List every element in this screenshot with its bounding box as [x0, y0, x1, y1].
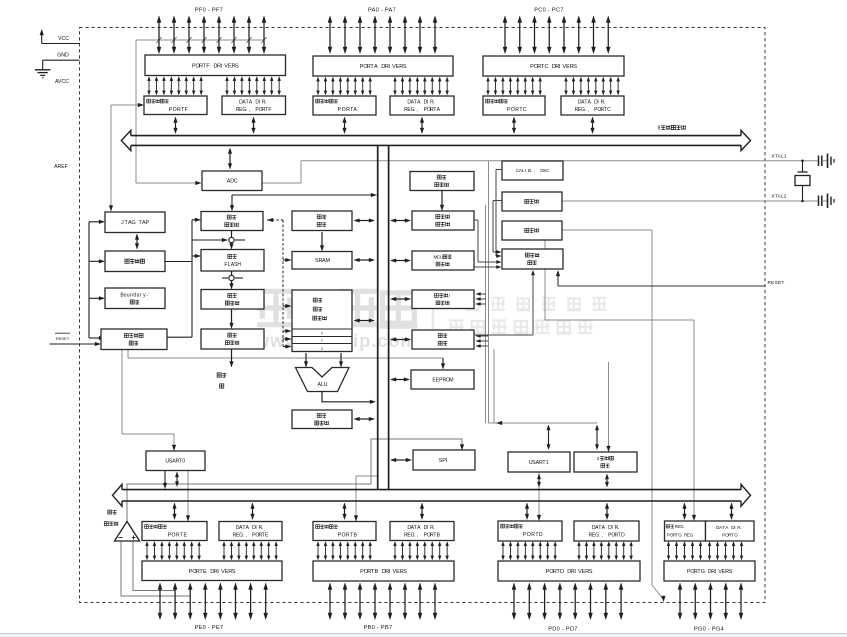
data register PORTG	[665, 521, 706, 541]
svg-text:A: A	[374, 64, 378, 70]
bus arrows PORTG	[684, 508, 686, 516]
arrow INT-bus	[395, 339, 406, 341]
data direction register PORTF	[222, 96, 286, 115]
svg-text:S: S	[573, 64, 577, 70]
svg-text:G: G	[701, 569, 705, 575]
on-chip debug 片上调试	[105, 251, 165, 272]
data register PORTF	[144, 96, 207, 115]
program counter 程序计数器	[201, 212, 263, 231]
crystal component	[801, 160, 804, 163]
arrow MCUCR-bus	[395, 260, 406, 262]
svg-text:S: S	[232, 569, 236, 575]
ALU	[296, 368, 350, 392]
PORTB pin arrows	[329, 589, 331, 615]
data register PORTE	[142, 522, 207, 541]
svg-text:C: C	[234, 179, 238, 185]
PORTD DRIVERS	[498, 561, 640, 581]
svg-text:XTAL1: XTAL1	[771, 154, 786, 160]
RESET wire	[558, 285, 765, 287]
EEPROM	[411, 370, 474, 389]
svg-text:I: I	[255, 525, 256, 531]
PORTE DRIVERS	[142, 561, 282, 581]
svg-text:.: .	[683, 524, 684, 529]
watermark 华强芯城	[257, 289, 295, 327]
PORTC DRIVERS	[483, 56, 624, 76]
program flash 程序FLASH	[201, 250, 264, 272]
svg-text:M: M	[325, 258, 330, 264]
svg-text:.: .	[414, 533, 415, 539]
USART0	[146, 451, 205, 471]
watchdog timer 看门狗定时器	[412, 211, 474, 230]
PORTG DRIVERS	[664, 561, 755, 581]
stack pointer 堆栈指针	[292, 211, 352, 231]
instruction register 指令寄存器	[201, 290, 264, 310]
wires into timing&control	[496, 169, 502, 171]
small arrows PORTG	[668, 545, 670, 557]
SPI	[413, 450, 475, 470]
interrupt unit 中断单元	[412, 330, 474, 349]
data register PORTA	[313, 96, 376, 115]
interrupt request arrows	[479, 335, 488, 337]
svg-text:.: .	[246, 107, 247, 113]
arrow TWI-bus	[606, 478, 608, 483]
arrow SP to SRAM	[321, 232, 323, 248]
wire OCD/programming to PC & flash	[191, 220, 193, 337]
arrow clock-TWI	[596, 429, 598, 446]
mux circle 1	[192, 239, 225, 241]
XTAL2 load capacitor & ground	[818, 196, 820, 207]
arrow TC-bus	[395, 298, 406, 300]
data direction register PORTD	[574, 521, 639, 541]
small arrows drivers-dataReg PORTF	[148, 80, 150, 92]
svg-text:,: ,	[588, 107, 589, 113]
bus arrows PORTF	[175, 122, 177, 130]
arrow USART1-bus	[538, 478, 540, 483]
wire: comparator inputs to PORTE pins	[121, 541, 190, 596]
SRAM	[292, 252, 352, 270]
svg-text:,: ,	[246, 533, 247, 539]
svg-text:I: I	[427, 100, 428, 106]
svg-text:S: S	[589, 569, 593, 575]
RESET input (left)	[55, 332, 70, 334]
svg-text:PD0 - PD7: PD0 - PD7	[548, 627, 577, 633]
arrow JTAG-OCD	[136, 239, 138, 245]
svg-text:S: S	[403, 64, 407, 70]
wire: clock distribution verticals	[488, 161, 490, 423]
svg-text:I: I	[715, 569, 717, 575]
svg-text:I: I	[427, 525, 428, 531]
svg-text:M: M	[449, 377, 453, 383]
svg-text:.: .	[584, 107, 585, 113]
svg-text:PORTA: PORTA	[338, 107, 358, 113]
JTAG TAP	[105, 212, 165, 233]
svg-text:I: I	[611, 525, 612, 531]
svg-text:PORTE: PORTE	[168, 533, 188, 539]
svg-text:C: C	[607, 107, 611, 113]
timing and control 时序与控制	[502, 249, 563, 269]
svg-text:S: S	[403, 569, 407, 575]
svg-text:G: G	[132, 220, 136, 226]
control lines arrow + label	[231, 349, 233, 364]
svg-text:.: .	[265, 99, 266, 105]
svg-text:I: I	[734, 525, 735, 530]
arrow ADC-bus	[229, 153, 231, 165]
data direction register PORTA	[390, 96, 454, 115]
svg-text:.: .	[433, 525, 434, 531]
wire: programming logic to EEPROM	[127, 350, 129, 359]
timer control arrows	[479, 293, 486, 295]
indirect addressing dashed path	[268, 218, 274, 222]
arrow clock-USART1	[548, 429, 550, 446]
wire: USART0 to PORTE reg	[187, 471, 189, 518]
svg-text:I: I	[446, 458, 448, 464]
ALU output to bus	[322, 392, 372, 402]
arrow SRAM-bus	[359, 259, 371, 261]
arrow SP-bus	[359, 220, 371, 222]
PORTB DRIVERS	[313, 561, 454, 581]
svg-text:PA0 - PA7: PA0 - PA7	[368, 8, 396, 14]
svg-text:H: H	[237, 262, 241, 268]
svg-text:PORTF: PORTF	[169, 107, 189, 113]
8-bit data bus (bottom)	[122, 489, 741, 491]
arrow EEPROM-bus	[395, 379, 405, 381]
mux circle 2	[222, 277, 228, 279]
timer/counters 定时器/计数器	[412, 290, 474, 309]
wire: programming logic to USART0	[122, 350, 174, 448]
svg-text:AVCC: AVCC	[55, 79, 69, 85]
PORTF pin arrows	[158, 22, 160, 49]
svg-text:PG0 - PG4: PG0 - PG4	[694, 627, 724, 633]
analog comparator 模拟比较器	[115, 522, 140, 542]
dashed chip boundary	[80, 28, 766, 603]
small arrows drivers-ddr PORTF	[226, 80, 228, 92]
svg-text:.: .	[414, 107, 415, 113]
bus arrows PORTD	[526, 508, 528, 516]
wire: TOSC line 2	[544, 240, 546, 320]
svg-text:AREF: AREF	[54, 164, 68, 170]
watermark divider	[432, 300, 435, 337]
ADC	[202, 171, 262, 191]
svg-text:,: ,	[417, 533, 418, 539]
wire: USART1 to PORTD reg	[538, 473, 540, 518]
wire: ADC to XTAL1 rail	[262, 182, 301, 184]
svg-text:RESET: RESET	[768, 280, 785, 286]
svg-text:F: F	[206, 63, 210, 69]
arrow prog line into EEPROM	[442, 358, 444, 366]
svg-text:B: B	[375, 569, 379, 575]
wire program counter to data bus	[232, 194, 373, 196]
central data bus vertical lines	[377, 145, 379, 489]
PORTD pin arrows	[513, 589, 515, 615]
small arrows drivers-ddr PORTA	[394, 80, 396, 92]
small arrows drivers-dataReg PORTC	[487, 80, 489, 92]
bus arrows PORTE	[174, 508, 176, 516]
svg-text:I: I	[597, 100, 598, 106]
JTAG chain wires	[88, 222, 90, 338]
PORTE pin arrows	[159, 589, 161, 615]
small arrows dataReg-drivers PORTB	[317, 545, 319, 557]
wire: PORTF analog tap to ADC	[136, 39, 264, 41]
svg-text:RESET: RESET	[56, 336, 70, 341]
instruction decoder 指令译码器	[201, 329, 264, 349]
wire: SPI to PORTB reg	[356, 476, 377, 517]
arrow GPR-bus	[359, 320, 371, 322]
data register PORTC	[483, 96, 545, 115]
arrow IR to decoder	[231, 309, 233, 325]
wire: TWI up line	[608, 362, 610, 448]
wire: clock rail to USART1 / TWI	[489, 422, 598, 424]
svg-text:.: .	[618, 525, 619, 531]
small arrows drivers-dataReg PORTA	[317, 80, 319, 92]
watermark 元器件在线商城	[449, 320, 464, 335]
wire: XTAL2 rail	[562, 200, 819, 202]
ALU input arrows	[305, 353, 307, 364]
internal oscillator 内部振荡器	[410, 172, 474, 191]
status register 状态寄存器	[292, 410, 352, 429]
svg-text:VCC: VCC	[58, 36, 69, 42]
svg-text:,: ,	[602, 533, 603, 539]
arrow int osc to watchdog	[441, 191, 443, 207]
arrow WDT-bus	[395, 220, 406, 222]
svg-text:S: S	[729, 569, 733, 575]
calibrated oscillator CALIB. OSC	[502, 161, 563, 180]
oscillator 振荡器 (XTAL)	[502, 192, 562, 211]
data direction register PORTG	[706, 521, 755, 541]
svg-text:PORTB: PORTB	[338, 533, 358, 539]
svg-text:G: G	[734, 532, 738, 537]
MCU control register MCU控制寄存器	[412, 251, 474, 270]
svg-text:PB0 - PB7: PB0 - PB7	[364, 625, 393, 631]
wire interrupt unit to timing&control	[474, 334, 533, 336]
watermark 华强集团旗下	[466, 298, 480, 310]
svg-text:I: I	[525, 168, 526, 173]
general purpose registers 通用寄存器 X Y Z	[292, 290, 352, 352]
svg-text:.: .	[604, 100, 605, 106]
svg-text:,: ,	[249, 107, 250, 113]
svg-text:F: F	[268, 107, 271, 113]
data register PORTD	[498, 521, 562, 541]
svg-text:PORTD: PORTD	[523, 532, 543, 538]
wire: comparator output to SPI	[127, 439, 462, 521]
svg-text:1: 1	[546, 460, 549, 466]
VCC pin	[41, 33, 43, 44]
svg-text:PE0 - PE7: PE0 - PE7	[195, 625, 224, 631]
arrow SREG-bus	[359, 418, 371, 420]
svg-text:0: 0	[182, 459, 185, 465]
data direction register PORTC	[561, 96, 624, 115]
data direction register PORTE	[219, 522, 282, 541]
bus arrows PORTB	[344, 508, 346, 516]
small arrows dataReg-drivers PORTD	[502, 545, 504, 557]
svg-text:D: D	[621, 533, 625, 539]
svg-text:S: S	[235, 63, 239, 69]
XTAL1 load capacitor & ground	[818, 156, 820, 167]
arrow SPI-bus	[395, 459, 407, 461]
svg-text:.: .	[598, 533, 599, 539]
page footer rule	[0, 633, 847, 635]
svg-text:.: .	[242, 533, 243, 539]
PORTC pin arrows	[504, 22, 506, 49]
PORTA DRIVERS	[313, 56, 453, 76]
bus arrows PORTA	[344, 122, 346, 130]
svg-text:PF0 - PF7: PF0 - PF7	[195, 8, 223, 14]
oscillator 振荡器 (TOSC)	[502, 221, 562, 240]
svg-text:2: 2	[597, 456, 600, 462]
svg-text:PC0 - PC7: PC0 - PC7	[534, 8, 563, 14]
8-bit data bus (top)	[131, 135, 741, 137]
svg-text:,: ,	[417, 107, 418, 113]
small arrows dataReg-drivers PORTE	[146, 545, 148, 557]
data register PORTB	[313, 522, 376, 541]
svg-text:GND: GND	[57, 53, 69, 59]
svg-text:PORTC: PORTC	[507, 107, 527, 113]
svg-text:.: .	[262, 525, 263, 531]
data direction register PORTB	[390, 522, 454, 541]
programming logic 程序设计逻辑	[101, 329, 167, 350]
svg-text:.: .	[531, 168, 532, 173]
svg-text:8: 8	[657, 126, 660, 132]
svg-text:C: C	[545, 64, 549, 70]
PORTG pin arrows	[679, 589, 681, 615]
svg-text:XTAL2: XTAL2	[771, 194, 786, 200]
USART1	[508, 452, 570, 472]
svg-text:I: I	[259, 99, 260, 105]
bus arrows PORTC	[513, 122, 515, 130]
svg-text:ALU: ALU	[317, 382, 327, 388]
USART0 to bus arrows	[164, 471, 166, 486]
PORTF DRIVERS	[145, 55, 286, 76]
svg-text:P: P	[145, 220, 149, 226]
svg-text:.: .	[433, 100, 434, 106]
two-wire serial interface 2线串行接口	[574, 452, 637, 472]
small arrows drivers-ddr PORTC	[565, 80, 567, 92]
PORTA pin arrows	[329, 22, 331, 49]
wire: PORTF reg / JTAG feed	[110, 105, 112, 208]
wire: TOSC line 1	[562, 229, 652, 231]
svg-text:,: ,	[534, 168, 535, 173]
svg-text:E: E	[203, 569, 207, 575]
svg-text:D: D	[560, 569, 564, 575]
boundary-scan 边界扫描	[105, 288, 165, 309]
svg-text:.: .	[740, 525, 741, 530]
